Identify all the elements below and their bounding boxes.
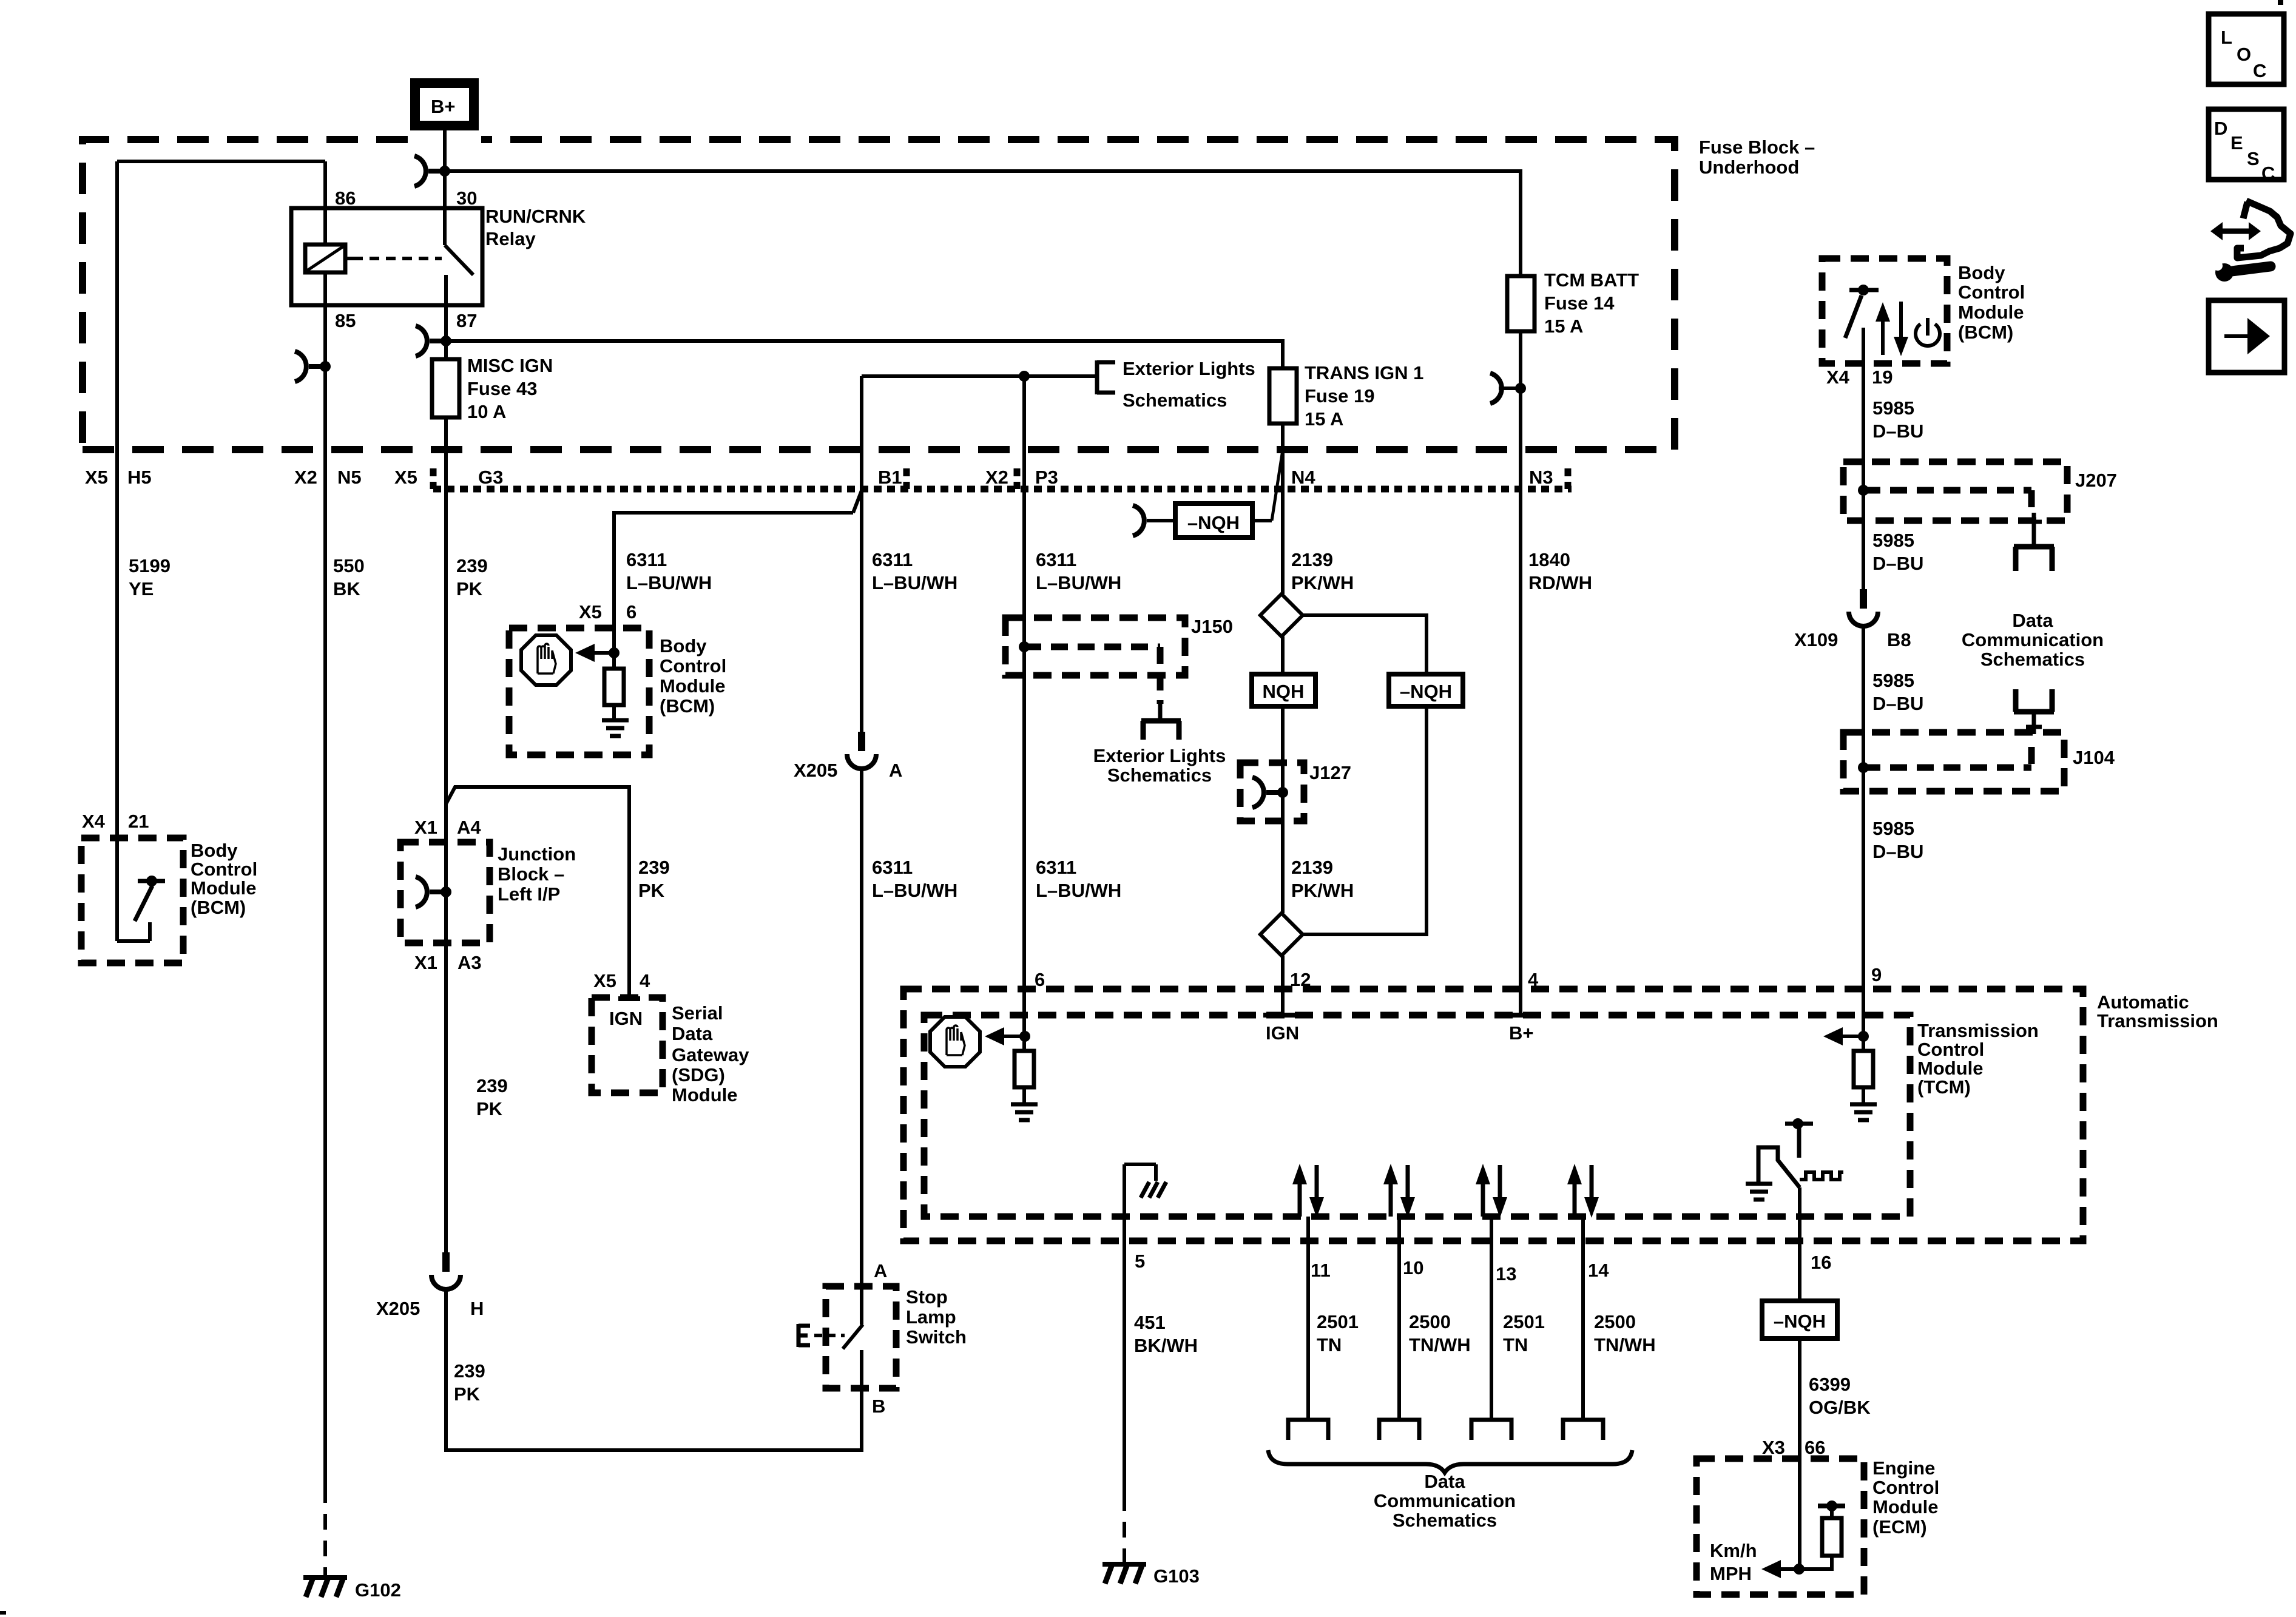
svg-text:Schematics: Schematics bbox=[1123, 390, 1227, 411]
svg-text:239: 239 bbox=[638, 857, 670, 878]
svg-text:6311: 6311 bbox=[872, 549, 913, 570]
svg-text:Switch: Switch bbox=[906, 1326, 967, 1348]
svg-text:P3: P3 bbox=[1035, 467, 1058, 488]
svg-text:(SDG): (SDG) bbox=[672, 1064, 725, 1085]
svg-text:MPH: MPH bbox=[1710, 1563, 1752, 1584]
svg-text:A3: A3 bbox=[458, 952, 482, 973]
svg-text:J207: J207 bbox=[2075, 470, 2117, 491]
svg-text:H: H bbox=[470, 1298, 484, 1319]
svg-text:PK/WH: PK/WH bbox=[1291, 572, 1354, 593]
svg-text:239: 239 bbox=[476, 1075, 508, 1096]
svg-text:Body: Body bbox=[1958, 262, 2005, 283]
svg-text:6311: 6311 bbox=[1036, 857, 1076, 878]
svg-text:15 A: 15 A bbox=[1305, 408, 1343, 430]
svg-text:Stop: Stop bbox=[906, 1286, 948, 1308]
svg-text:TN: TN bbox=[1503, 1334, 1528, 1355]
svg-text:14: 14 bbox=[1588, 1260, 1609, 1281]
svg-text:Lamp: Lamp bbox=[906, 1306, 956, 1328]
svg-text:A4: A4 bbox=[457, 817, 481, 838]
svg-text:BK/WH: BK/WH bbox=[1134, 1335, 1198, 1356]
svg-text:C: C bbox=[2253, 60, 2266, 81]
svg-text:Module: Module bbox=[191, 877, 257, 899]
svg-text:Automatic: Automatic bbox=[2097, 991, 2189, 1013]
svg-text:A: A bbox=[889, 760, 902, 781]
svg-text:Engine: Engine bbox=[1872, 1457, 1935, 1479]
svg-text:15 A: 15 A bbox=[1544, 316, 1583, 337]
svg-text:550: 550 bbox=[333, 555, 365, 576]
svg-text:Fuse 19: Fuse 19 bbox=[1305, 385, 1374, 407]
svg-text:Transmission: Transmission bbox=[1917, 1020, 2039, 1041]
svg-text:16: 16 bbox=[1811, 1252, 1831, 1273]
svg-text:X4: X4 bbox=[82, 811, 106, 832]
svg-text:E: E bbox=[2230, 132, 2243, 154]
svg-text:(BCM): (BCM) bbox=[660, 695, 715, 717]
svg-text:H5: H5 bbox=[127, 467, 152, 488]
svg-text:(TCM): (TCM) bbox=[1917, 1076, 1971, 1098]
svg-text:66: 66 bbox=[1805, 1437, 1825, 1458]
svg-text:2500: 2500 bbox=[1594, 1311, 1636, 1332]
svg-text:11: 11 bbox=[1311, 1260, 1331, 1281]
svg-text:OG/BK: OG/BK bbox=[1809, 1397, 1871, 1418]
svg-text:6311: 6311 bbox=[626, 549, 667, 570]
svg-text:2501: 2501 bbox=[1503, 1311, 1545, 1332]
svg-text:Schematics: Schematics bbox=[1393, 1510, 1497, 1531]
svg-text:Relay: Relay bbox=[485, 228, 536, 249]
svg-text:RD/WH: RD/WH bbox=[1528, 572, 1592, 593]
svg-text:Control: Control bbox=[1872, 1477, 1939, 1498]
svg-text:19: 19 bbox=[1872, 366, 1893, 388]
svg-text:L–BU/WH: L–BU/WH bbox=[1036, 880, 1121, 901]
svg-text:(ECM): (ECM) bbox=[1872, 1516, 1927, 1538]
svg-text:–NQH: –NQH bbox=[1400, 681, 1452, 702]
svg-text:IGN: IGN bbox=[609, 1008, 643, 1029]
svg-text:D–BU: D–BU bbox=[1872, 693, 1923, 714]
svg-text:L: L bbox=[2221, 27, 2232, 48]
svg-text:PK: PK bbox=[638, 880, 665, 901]
svg-text:X109: X109 bbox=[1794, 629, 1838, 650]
svg-text:5985: 5985 bbox=[1872, 670, 1914, 691]
svg-text:Schematics: Schematics bbox=[1107, 765, 1212, 786]
svg-text:Serial: Serial bbox=[672, 1002, 723, 1024]
svg-text:X5: X5 bbox=[85, 467, 108, 488]
svg-text:D–BU: D–BU bbox=[1872, 553, 1923, 574]
svg-text:Control: Control bbox=[660, 655, 726, 677]
svg-text:2139: 2139 bbox=[1291, 857, 1333, 878]
svg-text:4: 4 bbox=[1528, 969, 1539, 990]
svg-text:Fuse 14: Fuse 14 bbox=[1544, 292, 1615, 314]
svg-text:Gateway: Gateway bbox=[672, 1044, 749, 1065]
svg-text:5985: 5985 bbox=[1872, 530, 1914, 551]
svg-text:Transmission: Transmission bbox=[2097, 1010, 2218, 1031]
svg-text:X5: X5 bbox=[579, 601, 602, 623]
svg-text:J104: J104 bbox=[2073, 747, 2115, 768]
svg-text:PK: PK bbox=[456, 578, 483, 599]
svg-text:Control: Control bbox=[1958, 282, 2025, 303]
svg-text:10: 10 bbox=[1403, 1257, 1423, 1278]
svg-text:Junction: Junction bbox=[498, 843, 576, 865]
svg-text:(BCM): (BCM) bbox=[1958, 322, 2013, 343]
svg-text:J150: J150 bbox=[1191, 616, 1233, 637]
svg-text:N5: N5 bbox=[337, 467, 362, 488]
svg-text:30: 30 bbox=[456, 187, 477, 209]
svg-text:X205: X205 bbox=[376, 1298, 420, 1319]
svg-text:2501: 2501 bbox=[1317, 1311, 1359, 1332]
svg-text:(BCM): (BCM) bbox=[191, 897, 246, 918]
svg-text:Body: Body bbox=[660, 635, 707, 657]
svg-text:2139: 2139 bbox=[1291, 549, 1333, 570]
svg-text:D–BU: D–BU bbox=[1872, 420, 1923, 442]
svg-text:X3: X3 bbox=[1762, 1437, 1785, 1458]
svg-text:X1: X1 bbox=[414, 817, 437, 838]
svg-text:C: C bbox=[2261, 163, 2275, 184]
svg-text:87: 87 bbox=[456, 310, 477, 331]
svg-text:6399: 6399 bbox=[1809, 1374, 1851, 1395]
svg-text:S: S bbox=[2247, 148, 2260, 169]
svg-text:Data: Data bbox=[2012, 610, 2053, 631]
svg-text:MISC IGN: MISC IGN bbox=[467, 355, 553, 376]
svg-text:J127: J127 bbox=[1309, 762, 1351, 783]
svg-text:RUN/CRNK: RUN/CRNK bbox=[485, 206, 586, 227]
svg-text:TRANS IGN 1: TRANS IGN 1 bbox=[1305, 362, 1423, 383]
svg-text:85: 85 bbox=[335, 310, 356, 331]
svg-text:Left I/P: Left I/P bbox=[498, 883, 560, 905]
svg-text:6: 6 bbox=[1035, 969, 1045, 990]
svg-text:Module: Module bbox=[660, 675, 726, 697]
svg-text:X5: X5 bbox=[394, 467, 417, 488]
svg-text:Schematics: Schematics bbox=[1980, 649, 2085, 670]
svg-text:TN: TN bbox=[1317, 1334, 1342, 1355]
svg-text:Km/h: Km/h bbox=[1710, 1540, 1757, 1561]
svg-text:TN/WH: TN/WH bbox=[1594, 1334, 1656, 1355]
svg-text:Data: Data bbox=[1424, 1471, 1465, 1492]
svg-text:IGN: IGN bbox=[1266, 1022, 1299, 1044]
svg-text:PK: PK bbox=[476, 1098, 503, 1119]
svg-text:TN/WH: TN/WH bbox=[1409, 1334, 1471, 1355]
svg-text:D: D bbox=[2214, 118, 2227, 139]
svg-text:6311: 6311 bbox=[872, 857, 913, 878]
svg-text:PK: PK bbox=[454, 1383, 481, 1405]
svg-text:239: 239 bbox=[454, 1360, 485, 1382]
svg-text:TCM BATT: TCM BATT bbox=[1544, 269, 1639, 291]
svg-text:PK/WH: PK/WH bbox=[1291, 880, 1354, 901]
svg-text:1840: 1840 bbox=[1528, 549, 1570, 570]
svg-text:451: 451 bbox=[1134, 1312, 1166, 1333]
svg-text:X205: X205 bbox=[794, 760, 837, 781]
svg-text:5985: 5985 bbox=[1872, 397, 1914, 419]
svg-text:L–BU/WH: L–BU/WH bbox=[872, 572, 957, 593]
svg-text:–NQH: –NQH bbox=[1187, 512, 1240, 533]
svg-text:Exterior Lights: Exterior Lights bbox=[1093, 745, 1226, 766]
svg-text:–NQH: –NQH bbox=[1774, 1311, 1826, 1332]
svg-text:13: 13 bbox=[1496, 1263, 1516, 1284]
svg-text:Module: Module bbox=[1872, 1496, 1939, 1517]
svg-text:Body: Body bbox=[191, 840, 238, 861]
svg-text:X2: X2 bbox=[985, 467, 1008, 488]
svg-text:Module: Module bbox=[1958, 302, 2024, 323]
svg-text:86: 86 bbox=[335, 187, 356, 209]
svg-text:Fuse Block –: Fuse Block – bbox=[1699, 137, 1815, 158]
svg-text:Underhood: Underhood bbox=[1699, 157, 1799, 178]
svg-text:Exterior Lights: Exterior Lights bbox=[1123, 358, 1255, 379]
svg-text:5: 5 bbox=[1135, 1251, 1145, 1272]
svg-text:L–BU/WH: L–BU/WH bbox=[1036, 572, 1121, 593]
svg-text:B+: B+ bbox=[1509, 1022, 1534, 1044]
svg-text:21: 21 bbox=[128, 811, 149, 832]
svg-text:9: 9 bbox=[1871, 964, 1882, 985]
svg-text:12: 12 bbox=[1290, 969, 1311, 990]
svg-text:5199: 5199 bbox=[129, 555, 171, 576]
svg-text:L–BU/WH: L–BU/WH bbox=[626, 572, 712, 593]
svg-text:Block –: Block – bbox=[498, 863, 564, 885]
svg-text:Module: Module bbox=[1917, 1058, 1984, 1079]
svg-text:D–BU: D–BU bbox=[1872, 841, 1923, 862]
svg-text:Communication: Communication bbox=[1962, 629, 2104, 650]
svg-text:N4: N4 bbox=[1291, 467, 1315, 488]
svg-text:X4: X4 bbox=[1826, 366, 1850, 388]
svg-text:A: A bbox=[874, 1260, 887, 1281]
svg-text:L–BU/WH: L–BU/WH bbox=[872, 880, 957, 901]
svg-text:BK: BK bbox=[333, 578, 360, 599]
svg-text:X2: X2 bbox=[294, 467, 317, 488]
svg-text:Communication: Communication bbox=[1374, 1490, 1516, 1511]
svg-text:6311: 6311 bbox=[1036, 549, 1076, 570]
svg-text:B: B bbox=[872, 1396, 885, 1417]
svg-text:Data: Data bbox=[672, 1023, 713, 1044]
svg-text:6: 6 bbox=[626, 601, 636, 623]
svg-text:2500: 2500 bbox=[1409, 1311, 1451, 1332]
svg-text:Control: Control bbox=[1917, 1039, 1984, 1060]
svg-text:G102: G102 bbox=[355, 1579, 401, 1601]
svg-text:N3: N3 bbox=[1529, 467, 1553, 488]
svg-text:5985: 5985 bbox=[1872, 818, 1914, 839]
svg-text:YE: YE bbox=[129, 578, 154, 599]
svg-text:Fuse 43: Fuse 43 bbox=[467, 378, 537, 399]
svg-text:Control: Control bbox=[191, 859, 257, 880]
svg-text:NQH: NQH bbox=[1263, 681, 1305, 702]
svg-text:B8: B8 bbox=[1887, 629, 1911, 650]
svg-text:O: O bbox=[2237, 44, 2251, 65]
svg-text:10 A: 10 A bbox=[467, 401, 506, 422]
svg-text:239: 239 bbox=[456, 555, 488, 576]
svg-text:X5: X5 bbox=[593, 970, 616, 991]
svg-text:X1: X1 bbox=[414, 952, 437, 973]
svg-text:B+: B+ bbox=[431, 96, 456, 117]
svg-text:G3: G3 bbox=[478, 467, 503, 488]
svg-text:4: 4 bbox=[640, 970, 650, 991]
svg-text:Module: Module bbox=[672, 1084, 738, 1106]
svg-text:G103: G103 bbox=[1153, 1565, 1200, 1587]
svg-text:B1: B1 bbox=[878, 467, 902, 488]
